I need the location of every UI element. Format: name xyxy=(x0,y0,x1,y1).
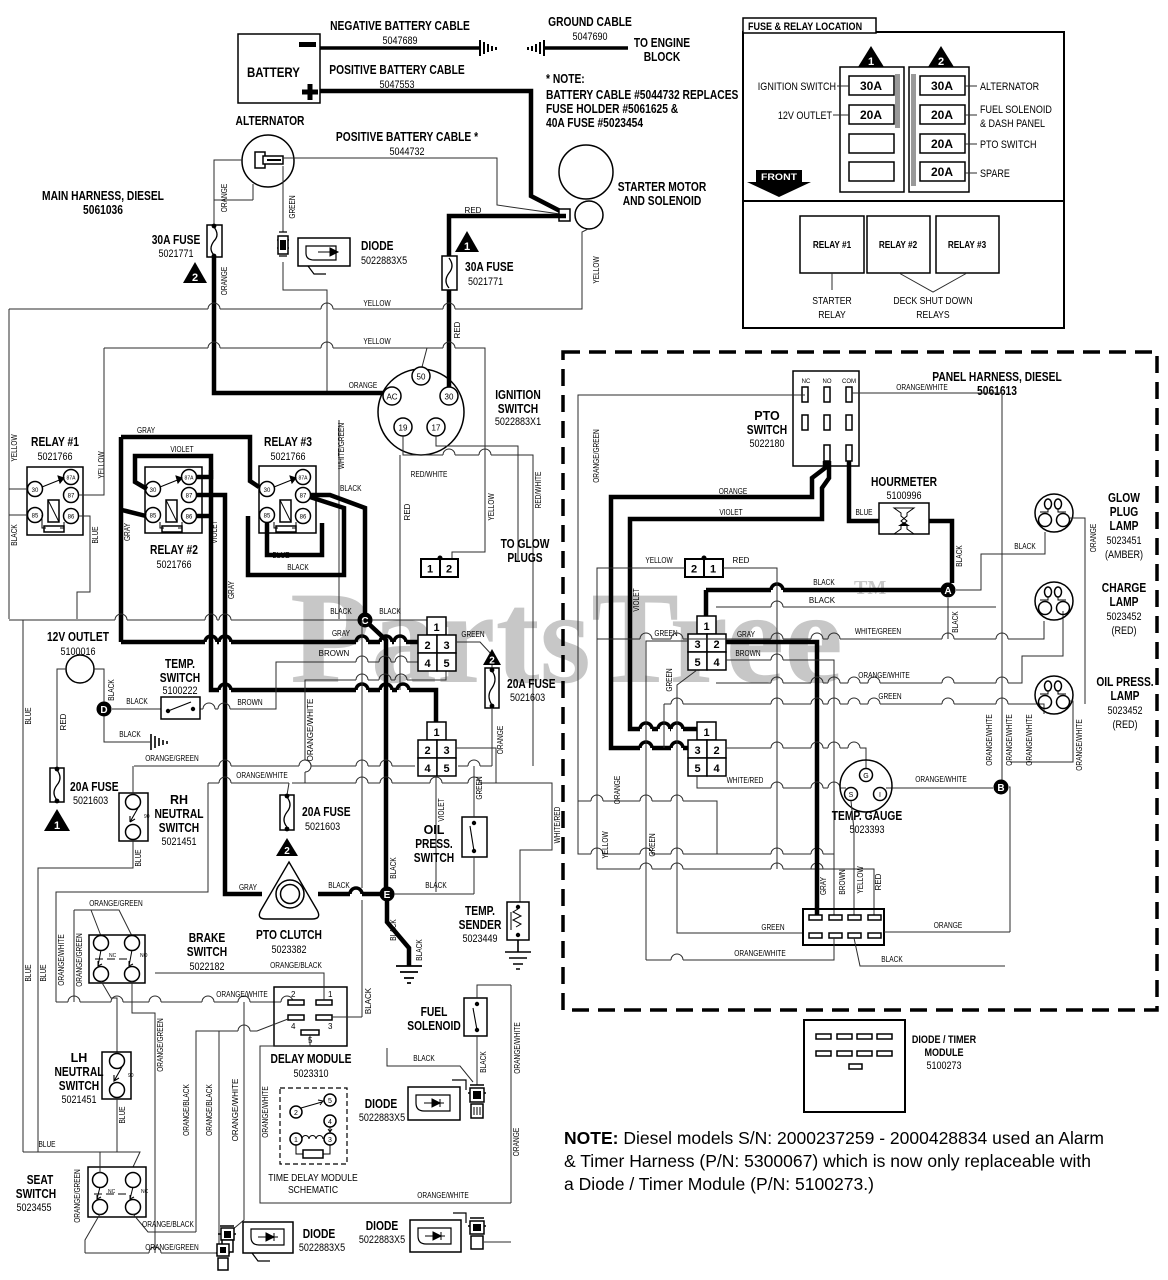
svg-text:BLACK: BLACK xyxy=(413,1054,435,1063)
wire cl1-5 down left xyxy=(305,671,446,783)
fuse relay location outer box xyxy=(743,32,1064,328)
svg-text:SCHEMATIC: SCHEMATIC xyxy=(288,1184,338,1196)
fuse F3 20A xyxy=(485,668,499,708)
svg-text:1: 1 xyxy=(868,56,874,68)
red wire 2|1 xyxy=(723,568,874,916)
svg-text:BLACK: BLACK xyxy=(951,611,960,633)
svg-text:OIL: OIL xyxy=(424,823,445,837)
svg-text:5021766: 5021766 xyxy=(156,559,191,571)
svg-text:NEUTRAL: NEUTRAL xyxy=(55,1065,104,1079)
wire y801 xyxy=(578,801,717,854)
orange/white wire y1002 xyxy=(56,1001,293,1003)
svg-text:5047690: 5047690 xyxy=(572,31,607,43)
svg-text:5021771: 5021771 xyxy=(468,276,503,288)
thick gray wire relay2 loop xyxy=(121,437,259,487)
temp gauge xyxy=(840,760,892,812)
svg-text:NEUTRAL: NEUTRAL xyxy=(155,807,204,821)
svg-text:5021451: 5021451 xyxy=(161,836,196,848)
divider xyxy=(743,200,1064,202)
connector block CL2 xyxy=(418,722,456,776)
svg-text:ORANGE: ORANGE xyxy=(1089,524,1098,552)
fuse F2 30A xyxy=(207,225,222,257)
front arrow xyxy=(747,170,811,197)
svg-text:ORANGE/WHITE: ORANGE/WHITE xyxy=(261,1086,270,1137)
svg-text:5023393: 5023393 xyxy=(849,824,884,836)
orange/black wire pin1 xyxy=(155,973,324,1000)
svg-text:TEMP.: TEMP. xyxy=(165,657,195,671)
svg-text:YELLOW: YELLOW xyxy=(363,299,391,308)
svg-text:40A FUSE #5023454: 40A FUSE #5023454 xyxy=(546,116,643,130)
svg-text:ORANGE/WHITE: ORANGE/WHITE xyxy=(1025,714,1034,765)
svg-text:RED/WHITE: RED/WHITE xyxy=(534,472,543,509)
deck relays pointer xyxy=(899,273,967,292)
svg-text:3: 3 xyxy=(443,745,449,757)
fuse column 1 xyxy=(840,67,904,192)
svg-text:ORANGE/GREEN: ORANGE/GREEN xyxy=(145,754,199,763)
svg-text:BLACK: BLACK xyxy=(10,524,19,546)
wire green diode down to yellow area xyxy=(283,262,327,309)
svg-text:YELLOW: YELLOW xyxy=(856,866,865,894)
svg-text:1: 1 xyxy=(464,241,470,253)
svg-text:TEMP.: TEMP. xyxy=(465,904,495,918)
svg-text:NOTE: Diesel models S/N: 20002: NOTE: Diesel models S/N: 2000237259 - 20… xyxy=(564,1128,1104,1148)
connector block CL1 xyxy=(418,617,456,671)
svg-text:TO GLOW: TO GLOW xyxy=(501,537,550,551)
svg-text:& Timer Harness (P/N: 5300067): & Timer Harness (P/N: 5300067) which is … xyxy=(564,1151,1091,1171)
svg-text:BLACK: BLACK xyxy=(107,679,116,701)
node A xyxy=(941,583,956,598)
node D xyxy=(97,702,112,717)
orange/white wire y683 xyxy=(716,611,1063,683)
wire yellow left vertical xyxy=(8,309,10,619)
seat BR wire to orange/black xyxy=(85,1214,196,1253)
time delay schematic box xyxy=(280,1088,347,1164)
svg-text:BLACK: BLACK xyxy=(328,881,350,890)
svg-text:HOURMETER: HOURMETER xyxy=(871,475,937,489)
svg-text:WHITE/GREEN: WHITE/GREEN xyxy=(337,423,346,469)
svg-text:5022883X5: 5022883X5 xyxy=(359,1112,405,1124)
node C xyxy=(358,613,373,628)
svg-text:BLUE: BLUE xyxy=(24,964,33,981)
svg-text:BROWN: BROWN xyxy=(735,649,760,658)
positive battery cable wire xyxy=(320,91,564,213)
svg-text:NC: NC xyxy=(109,953,117,959)
connector hash right xyxy=(528,40,544,56)
svg-text:ORANGE/WHITE: ORANGE/WHITE xyxy=(858,671,909,680)
wire relay1 85 left xyxy=(9,514,27,516)
black wire thin y607 xyxy=(716,606,996,608)
terminal AC xyxy=(383,387,401,405)
relay box 3 xyxy=(936,216,999,273)
svg-text:LH: LH xyxy=(71,1051,88,1065)
svg-text:ORANGE/WHITE: ORANGE/WHITE xyxy=(1005,714,1014,765)
svg-text:30A FUSE: 30A FUSE xyxy=(152,233,201,247)
svg-text:ORANGE/GREEN: ORANGE/GREEN xyxy=(156,1018,165,1072)
long black wire y620 xyxy=(9,619,427,621)
bottom connector box xyxy=(803,909,884,945)
svg-text:YELLOW: YELLOW xyxy=(487,493,496,521)
svg-text:30: 30 xyxy=(150,488,157,494)
panel connector PC2 xyxy=(688,722,726,776)
svg-text:WHITE/GREEN: WHITE/GREEN xyxy=(855,627,901,636)
svg-text:DIODE: DIODE xyxy=(366,1219,399,1233)
ground cable wire xyxy=(545,46,628,50)
svg-text:ORANGE/WHITE: ORANGE/WHITE xyxy=(417,1191,468,1200)
svg-text:PLUG: PLUG xyxy=(1110,505,1139,519)
orange/green bottom wire xyxy=(85,1247,228,1253)
orange/green brake wires xyxy=(74,910,132,936)
wire green from alternator down xyxy=(282,166,284,232)
svg-text:5: 5 xyxy=(328,1098,332,1105)
svg-text:2: 2 xyxy=(691,564,697,576)
svg-text:1: 1 xyxy=(427,564,433,576)
diode D3 plug xyxy=(468,1218,486,1226)
svg-text:GREEN: GREEN xyxy=(475,776,484,799)
wire B right xyxy=(1009,787,1010,932)
relay R3 xyxy=(259,466,316,533)
white/green wire xyxy=(597,621,1044,639)
svg-text:DELAY MODULE: DELAY MODULE xyxy=(271,1052,352,1066)
svg-text:NO: NO xyxy=(823,379,832,385)
wire pc2-2 to G xyxy=(726,748,866,770)
svg-text:2: 2 xyxy=(489,656,495,667)
ground symbol E xyxy=(396,966,422,983)
relay R2 xyxy=(145,467,202,533)
svg-text:BRAKE: BRAKE xyxy=(189,931,226,945)
svg-text:RELAY #3: RELAY #3 xyxy=(948,240,987,251)
thick wire relay2 86 stub xyxy=(196,514,211,519)
svg-text:12V OUTLET: 12V OUTLET xyxy=(47,630,109,644)
svg-text:GREEN: GREEN xyxy=(761,923,784,932)
svg-text:ORANGE: ORANGE xyxy=(496,726,505,754)
thick violet vertical xyxy=(211,470,436,722)
svg-text:POSITIVE BATTERY CABLE: POSITIVE BATTERY CABLE xyxy=(329,63,464,77)
svg-text:BLACK: BLACK xyxy=(340,484,362,493)
wire pin4 diag xyxy=(196,1019,288,1232)
svg-text:4: 4 xyxy=(424,763,431,775)
oil press switch xyxy=(462,817,487,857)
diode D3 box xyxy=(410,1220,461,1252)
bottom left connector xyxy=(216,1252,230,1254)
svg-text:BATTERY: BATTERY xyxy=(247,64,300,80)
svg-text:RELAY: RELAY xyxy=(818,309,846,321)
svg-text:PTO SWITCH: PTO SWITCH xyxy=(980,139,1037,151)
svg-text:BROWN: BROWN xyxy=(838,869,847,894)
green wire to fuse xyxy=(456,642,492,668)
svg-text:LAMP: LAMP xyxy=(1110,519,1139,533)
svg-text:FUSE & RELAY LOCATION: FUSE & RELAY LOCATION xyxy=(748,21,862,33)
svg-text:BLUE: BLUE xyxy=(118,1106,127,1123)
svg-text:ORANGE: ORANGE xyxy=(613,776,622,804)
svg-text:87: 87 xyxy=(300,494,307,500)
svg-text:BLACK: BLACK xyxy=(389,919,398,941)
terminal 30 xyxy=(440,387,458,405)
wire D to temp switch xyxy=(112,708,161,710)
glow plug connector 1|2 xyxy=(421,559,458,577)
svg-text:SWITCH: SWITCH xyxy=(498,402,538,416)
black vertical x362 xyxy=(361,620,363,1017)
svg-text:4: 4 xyxy=(291,1022,296,1031)
svg-text:2: 2 xyxy=(713,639,719,651)
svg-text:85: 85 xyxy=(32,514,39,520)
svg-text:19: 19 xyxy=(399,424,408,433)
wire brake BL to LH xyxy=(101,981,117,1052)
svg-text:5021451: 5021451 xyxy=(61,1094,96,1106)
svg-text:a Diode / Timer Module (P/N: 5: a Diode / Timer Module (P/N: 5100273.) xyxy=(564,1174,874,1194)
svg-text:20A: 20A xyxy=(931,137,953,151)
node B xyxy=(994,780,1009,795)
svg-text:BLUE: BLUE xyxy=(91,526,100,543)
svg-text:DIODE / TIMER: DIODE / TIMER xyxy=(912,1034,976,1046)
12V outlet xyxy=(66,655,94,683)
wire pc2-5 white/red xyxy=(697,776,846,788)
svg-text:30A: 30A xyxy=(860,79,882,93)
alternator label xyxy=(965,85,977,87)
svg-text:LAMP: LAMP xyxy=(1111,689,1140,703)
svg-text:(RED): (RED) xyxy=(1111,625,1136,637)
svg-text:4: 4 xyxy=(713,763,720,775)
svg-text:20A: 20A xyxy=(931,165,953,179)
svg-text:YELLOW: YELLOW xyxy=(10,434,19,462)
svg-text:ORANGE/GREEN: ORANGE/GREEN xyxy=(592,429,601,483)
svg-text:86: 86 xyxy=(68,515,75,521)
svg-text:5022180: 5022180 xyxy=(749,438,784,450)
svg-text:GREEN: GREEN xyxy=(665,668,674,691)
svg-text:ORANGE/WHITE: ORANGE/WHITE xyxy=(306,699,315,762)
svg-text:D: D xyxy=(100,705,107,716)
svg-text:5021766: 5021766 xyxy=(37,451,72,463)
svg-text:SWITCH: SWITCH xyxy=(414,851,454,865)
svg-text:RED: RED xyxy=(59,713,68,730)
brown wire temp switch to connector xyxy=(200,662,418,709)
svg-text:BLUE: BLUE xyxy=(134,849,143,866)
panel connector PC1 xyxy=(688,616,726,670)
svg-text:GREEN: GREEN xyxy=(288,195,297,218)
RH neutral switch xyxy=(119,793,148,841)
wire A to glow lamp xyxy=(956,532,1045,590)
svg-text:GREEN: GREEN xyxy=(648,833,657,856)
svg-text:5021771: 5021771 xyxy=(158,248,193,260)
wire D down to ground xyxy=(104,716,150,742)
svg-text:2: 2 xyxy=(424,640,430,652)
fuse column 2 xyxy=(909,67,969,192)
pto switch box xyxy=(793,371,859,466)
triangle marker 2c xyxy=(276,838,298,856)
svg-text:ORANGE/BLACK: ORANGE/BLACK xyxy=(142,1220,194,1229)
svg-text:GRAY: GRAY xyxy=(737,630,756,639)
svg-text:5023382: 5023382 xyxy=(271,944,306,956)
svg-text:STARTER: STARTER xyxy=(812,295,852,307)
wire S down xyxy=(851,801,854,916)
svg-text:1: 1 xyxy=(703,621,709,633)
svg-text:5021603: 5021603 xyxy=(510,692,545,704)
seat switch xyxy=(88,1167,146,1217)
svg-text:RELAYS: RELAYS xyxy=(916,309,949,321)
svg-text:& DASH PANEL: & DASH PANEL xyxy=(980,118,1045,130)
spare label xyxy=(965,172,977,174)
svg-text:ORANGE/BLACK: ORANGE/BLACK xyxy=(182,1084,191,1136)
connector 2|1 xyxy=(685,559,723,577)
svg-text:ORANGE/WHITE: ORANGE/WHITE xyxy=(896,383,947,392)
oil press lamp xyxy=(1035,676,1073,714)
alternator xyxy=(242,135,294,187)
orange/white wire y783 xyxy=(208,783,552,902)
wire oil bottom to E line xyxy=(473,857,475,894)
svg-text:RH: RH xyxy=(170,793,188,807)
svg-text:5022883X5: 5022883X5 xyxy=(361,255,407,267)
svg-text:1: 1 xyxy=(710,564,716,576)
svg-text:FRONT: FRONT xyxy=(761,172,797,183)
svg-text:ORANGE/WHITE: ORANGE/WHITE xyxy=(1075,719,1084,770)
diode timer module box xyxy=(804,1020,905,1112)
svg-text:4: 4 xyxy=(328,1119,332,1126)
svg-text:ORANGE/WHITE: ORANGE/WHITE xyxy=(216,990,267,999)
wire relay1 30 left xyxy=(9,488,27,490)
svg-text:ORANGE/WHITE: ORANGE/WHITE xyxy=(236,771,287,780)
svg-text:ORANGE: ORANGE xyxy=(220,184,229,212)
svg-text:COM: COM xyxy=(842,379,856,385)
svg-text:BLACK: BLACK xyxy=(955,545,964,567)
svg-text:RELAY #1: RELAY #1 xyxy=(813,240,852,251)
panel dashed border xyxy=(563,352,1157,1010)
wire pin3 xyxy=(332,1016,362,1018)
diode plug connector xyxy=(277,232,289,256)
svg-text:2: 2 xyxy=(294,1110,298,1117)
fuse F1 30A xyxy=(442,256,457,290)
green wire pc1-3 xyxy=(646,641,688,960)
svg-text:87: 87 xyxy=(186,494,193,500)
svg-text:RELAY #2: RELAY #2 xyxy=(150,543,198,557)
svg-text:GROUND CABLE: GROUND CABLE xyxy=(548,15,632,29)
svg-text:90: 90 xyxy=(144,814,150,820)
svg-text:86: 86 xyxy=(300,515,307,521)
svg-text:FUSE HOLDER #5061625 &: FUSE HOLDER #5061625 & xyxy=(546,102,678,116)
svg-text:BLACK: BLACK xyxy=(287,563,309,572)
svg-text:GRAY: GRAY xyxy=(227,580,236,599)
svg-text:DIODE: DIODE xyxy=(303,1227,336,1241)
svg-text:NEGATIVE BATTERY CABLE: NEGATIVE BATTERY CABLE xyxy=(330,19,470,33)
svg-text:(RED): (RED) xyxy=(1112,719,1137,731)
diode D2 box xyxy=(243,1222,293,1253)
delay module xyxy=(274,987,347,1046)
svg-text:ORANGE: ORANGE xyxy=(220,267,229,295)
svg-text:5023449: 5023449 xyxy=(462,933,497,945)
svg-text:NC: NC xyxy=(108,1189,116,1195)
wire alternator down to fuse2 xyxy=(214,184,253,225)
thick black hourmeter to A xyxy=(929,521,952,583)
svg-text:5021603: 5021603 xyxy=(73,795,108,807)
svg-text:PLUGS: PLUGS xyxy=(507,551,542,565)
wire outlet right to D xyxy=(94,669,104,702)
hop bumps y620 xyxy=(115,614,231,620)
svg-text:30: 30 xyxy=(264,488,271,494)
svg-text:IGNITION SWITCH: IGNITION SWITCH xyxy=(758,81,836,93)
temp sender box xyxy=(507,902,529,940)
svg-text:POSITIVE BATTERY CABLE *: POSITIVE BATTERY CABLE * xyxy=(336,130,478,144)
negative battery cable wire xyxy=(320,46,479,50)
svg-text:RED: RED xyxy=(874,873,883,890)
wire d3 plug right xyxy=(484,1241,511,1243)
terminal 50 xyxy=(412,367,430,385)
svg-text:RED: RED xyxy=(403,503,412,520)
triangle 1 header xyxy=(858,46,884,67)
svg-text:5022182: 5022182 xyxy=(189,961,224,973)
svg-text:20A: 20A xyxy=(860,108,882,122)
svg-text:3: 3 xyxy=(694,745,700,757)
svg-text:RED: RED xyxy=(465,206,482,215)
thick gray wire relay2 87 down to pto xyxy=(196,495,262,894)
wire A down xyxy=(947,598,949,639)
ground symbol sender xyxy=(505,940,531,969)
svg-text:12V OUTLET: 12V OUTLET xyxy=(778,110,832,122)
triangle marker 1 xyxy=(455,231,479,252)
svg-text:3: 3 xyxy=(694,639,700,651)
svg-text:5: 5 xyxy=(694,763,700,775)
svg-text:GRAY: GRAY xyxy=(239,883,258,892)
whitegreen wire xyxy=(338,420,340,619)
thick violet wire relay2 xyxy=(135,456,211,489)
svg-text:5: 5 xyxy=(694,657,700,669)
svg-text:5100996: 5100996 xyxy=(886,490,921,502)
LH neutral switch xyxy=(102,1052,131,1099)
wire relay1 86 right down xyxy=(77,516,90,619)
svg-text:G: G xyxy=(863,773,868,780)
wire rh bottom blue xyxy=(38,840,133,1152)
svg-text:SPARE: SPARE xyxy=(980,168,1010,180)
svg-text:BATTERY CABLE #5044732 REPLACE: BATTERY CABLE #5044732 REPLACES xyxy=(546,88,738,102)
svg-text:50: 50 xyxy=(417,373,426,382)
fuel solenoid xyxy=(464,998,487,1036)
svg-text:E: E xyxy=(384,890,391,901)
svg-text:20A FUSE: 20A FUSE xyxy=(302,805,351,819)
svg-text:5061036: 5061036 xyxy=(83,203,123,217)
svg-text:DIODE: DIODE xyxy=(361,239,394,253)
svg-text:I: I xyxy=(879,792,881,799)
thick black pto to E xyxy=(318,892,380,897)
yellow wire 2 xyxy=(104,348,485,560)
svg-text:RED: RED xyxy=(453,321,462,338)
svg-text:LAMP: LAMP xyxy=(1110,595,1139,609)
svg-text:5061613: 5061613 xyxy=(977,384,1017,398)
ignition switch body xyxy=(378,369,464,455)
svg-text:NC: NC xyxy=(141,1189,149,1195)
svg-text:2: 2 xyxy=(291,990,296,999)
triangle 2 header xyxy=(928,46,954,67)
svg-text:5047689: 5047689 xyxy=(382,35,417,47)
svg-text:BLUE: BLUE xyxy=(855,508,872,517)
svg-text:5023455: 5023455 xyxy=(16,1202,51,1214)
green wire pc1-5 xyxy=(677,670,803,933)
svg-text:PTO: PTO xyxy=(754,409,780,423)
svg-text:ORANGE/WHITE: ORANGE/WHITE xyxy=(513,1022,522,1073)
relay R1 xyxy=(27,467,83,535)
svg-text:RELAY #3: RELAY #3 xyxy=(264,435,312,449)
thick black E to ground xyxy=(387,901,409,966)
svg-text:20A FUSE: 20A FUSE xyxy=(507,677,556,691)
relay box 2 xyxy=(867,216,930,273)
svg-text:BLACK: BLACK xyxy=(425,881,447,890)
svg-text:WHITE/RED: WHITE/RED xyxy=(553,806,562,843)
svg-text:ORANGE/WHITE: ORANGE/WHITE xyxy=(734,949,785,958)
svg-text:5021603: 5021603 xyxy=(305,821,340,833)
svg-text:GRAY: GRAY xyxy=(123,522,132,541)
svg-text:30: 30 xyxy=(32,488,39,494)
fuse F4 20A xyxy=(50,768,64,802)
svg-text:B: B xyxy=(997,783,1004,794)
svg-text:ORANGE/BLACK: ORANGE/BLACK xyxy=(205,1084,214,1136)
svg-text:3: 3 xyxy=(443,640,449,652)
svg-text:4: 4 xyxy=(424,658,431,670)
